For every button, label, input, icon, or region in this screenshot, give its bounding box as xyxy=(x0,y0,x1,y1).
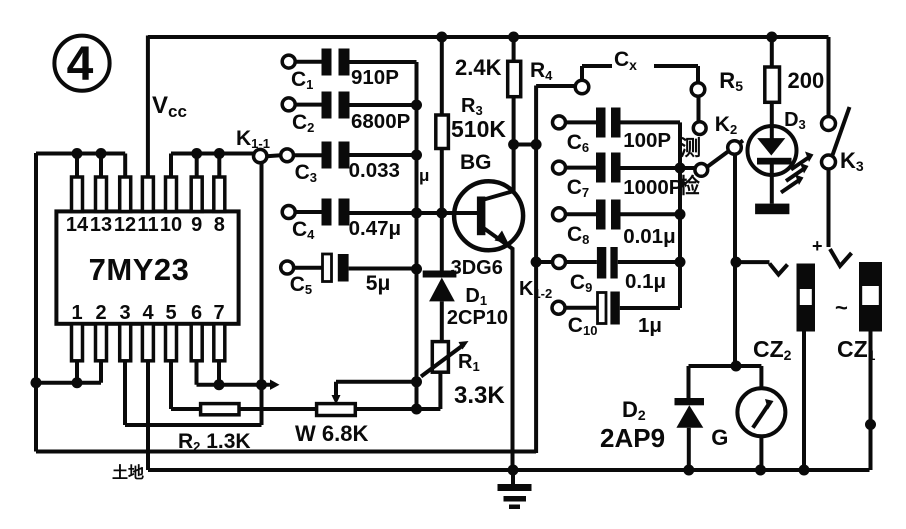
svg-text:200: 200 xyxy=(788,68,825,93)
svg-text:100P: 100P xyxy=(623,129,671,152)
svg-text:~: ~ xyxy=(835,295,848,320)
svg-text:1: 1 xyxy=(71,302,82,324)
svg-text:5μ: 5μ xyxy=(366,272,391,295)
svg-text:7MY23: 7MY23 xyxy=(89,252,190,287)
svg-text:13: 13 xyxy=(90,214,112,236)
svg-text:1000P: 1000P xyxy=(623,176,682,199)
svg-text:11: 11 xyxy=(137,214,158,236)
svg-text:μ: μ xyxy=(419,166,429,185)
svg-text:2CP10: 2CP10 xyxy=(447,307,508,329)
svg-text:4: 4 xyxy=(67,38,94,91)
svg-text:0.1μ: 0.1μ xyxy=(625,270,666,293)
svg-text:6800P: 6800P xyxy=(351,110,410,133)
svg-text:12: 12 xyxy=(114,214,136,236)
svg-text:4: 4 xyxy=(142,302,154,324)
svg-text:14: 14 xyxy=(66,214,89,236)
svg-text:7: 7 xyxy=(213,302,224,324)
svg-text:0.47μ: 0.47μ xyxy=(349,217,401,240)
svg-text:测: 测 xyxy=(680,137,701,160)
svg-text:0.033: 0.033 xyxy=(349,159,400,182)
svg-text:BG: BG xyxy=(460,151,492,174)
svg-text:2AP9: 2AP9 xyxy=(600,423,665,453)
svg-text:910P: 910P xyxy=(351,66,399,89)
svg-text:W 6.8K: W 6.8K xyxy=(295,421,368,446)
svg-text:510K: 510K xyxy=(451,116,506,142)
svg-text:5: 5 xyxy=(165,302,176,324)
svg-text:6: 6 xyxy=(191,302,202,324)
svg-text:8: 8 xyxy=(214,214,225,236)
svg-text:10: 10 xyxy=(160,214,182,236)
svg-text:+: + xyxy=(812,236,823,256)
svg-text:3.3K: 3.3K xyxy=(454,382,505,409)
svg-text:1μ: 1μ xyxy=(638,314,662,337)
svg-text:土地: 土地 xyxy=(112,463,144,482)
svg-text:G: G xyxy=(711,425,728,450)
svg-text:0.01μ: 0.01μ xyxy=(623,225,675,248)
svg-text:2.4K: 2.4K xyxy=(455,55,502,80)
svg-text:2: 2 xyxy=(95,302,106,324)
svg-text:3DG6: 3DG6 xyxy=(451,257,503,279)
svg-text:9: 9 xyxy=(191,214,202,236)
svg-text:3: 3 xyxy=(119,302,130,324)
